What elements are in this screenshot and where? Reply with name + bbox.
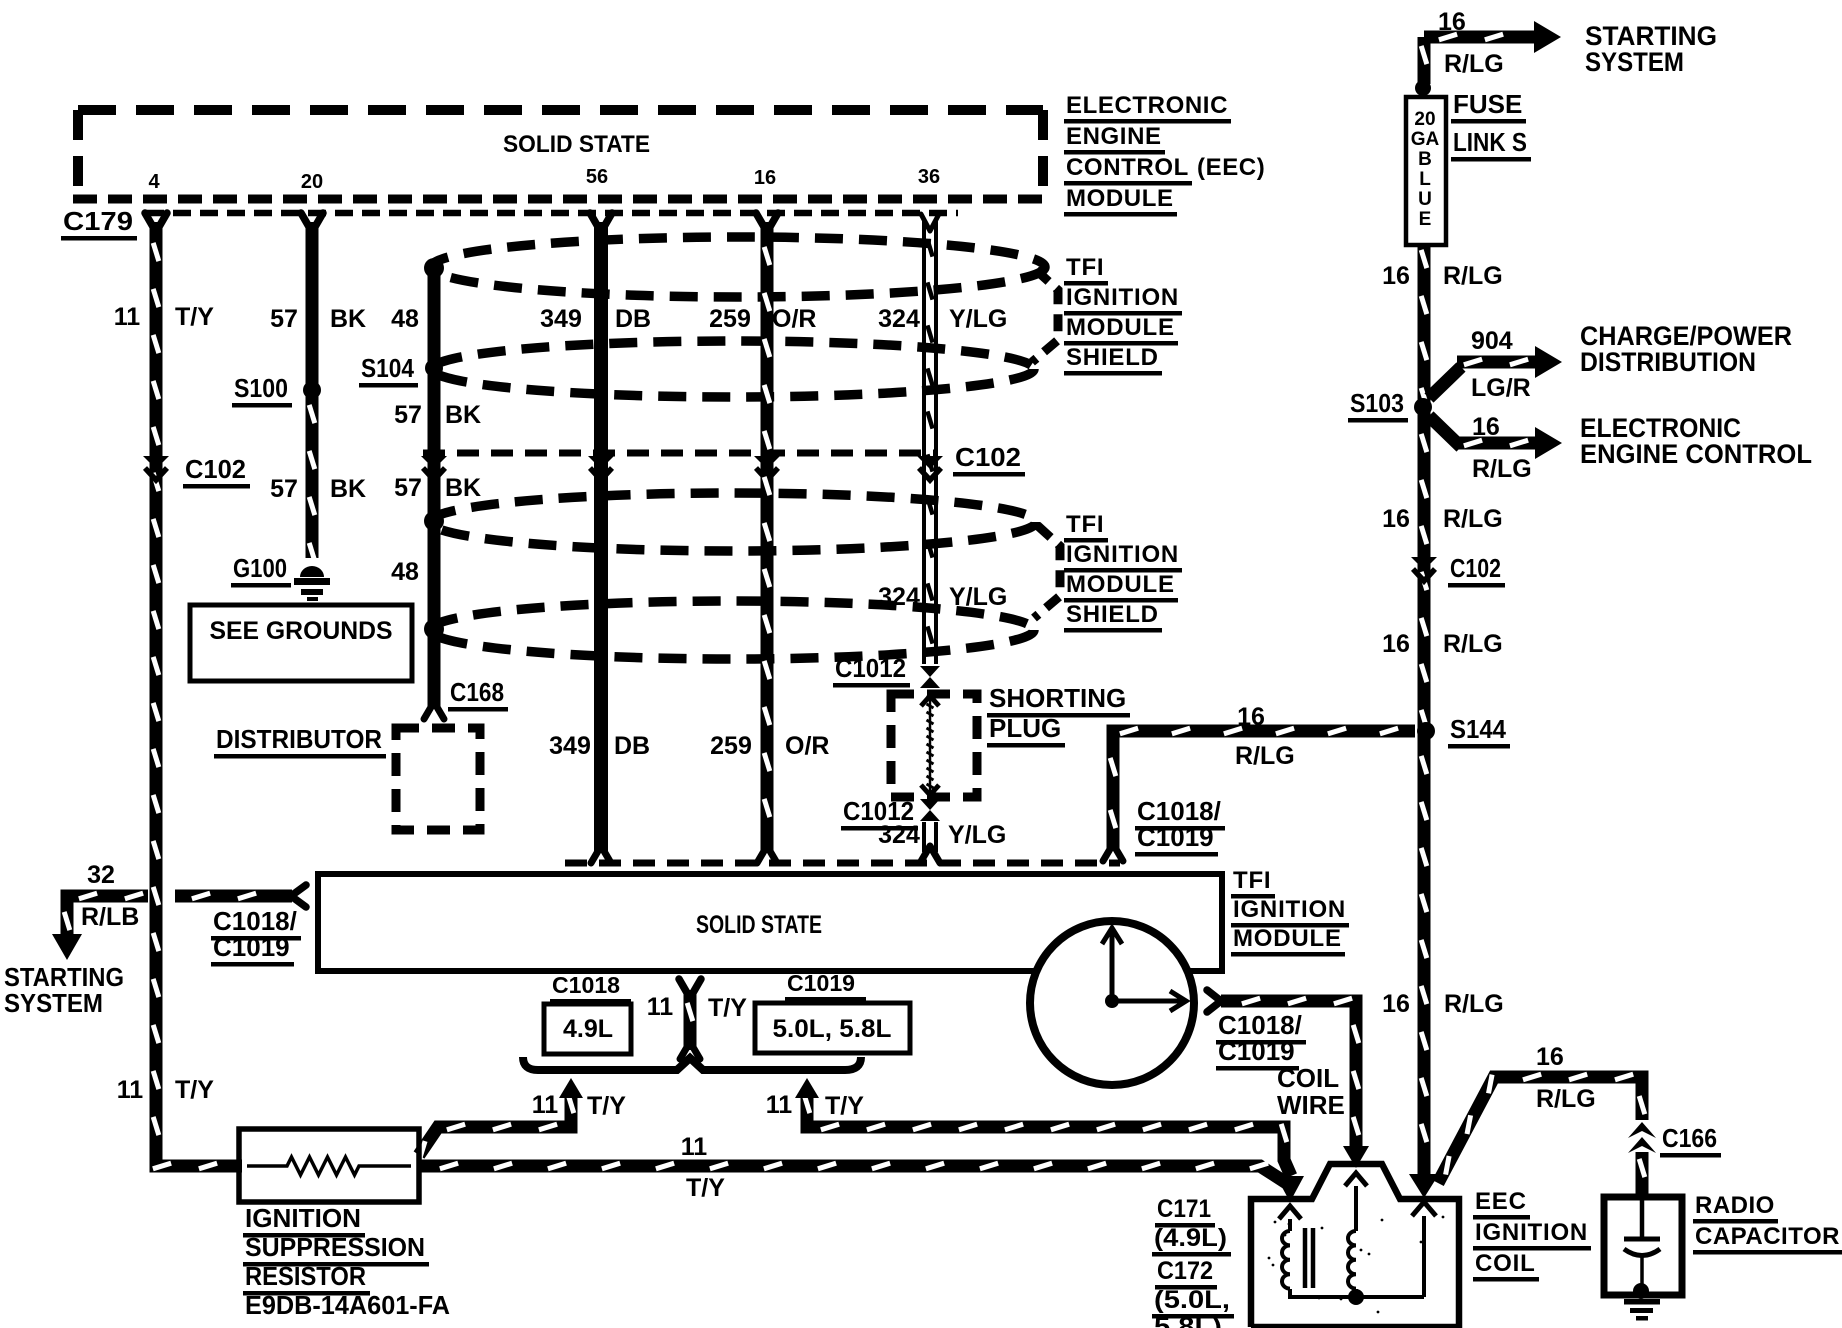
svg-text:16: 16 (754, 167, 776, 189)
connector C166 symbol (1628, 1122, 1656, 1138)
svg-text:IGNITION: IGNITION (1233, 896, 1346, 923)
svg-text:259: 259 (710, 732, 752, 760)
svg-text:RESISTOR: RESISTOR (245, 1261, 366, 1291)
svg-text:GA: GA (1411, 129, 1440, 150)
svg-text:Y/LG: Y/LG (949, 305, 1007, 333)
svg-text:CONTROL: CONTROL (1066, 154, 1189, 181)
svg-text:11: 11 (532, 1091, 559, 1119)
capacitor curved plate (1624, 1249, 1660, 1256)
svg-text:5.8L): 5.8L) (1154, 1313, 1222, 1328)
coil left entry chevron (1279, 1206, 1301, 1219)
connector C102 on wire 259 (754, 456, 780, 469)
svg-text:MODULE: MODULE (1066, 185, 1174, 212)
capacitor ground junction (1633, 1283, 1649, 1299)
capacitor flat plate (1624, 1237, 1660, 1242)
alternate connector brace (523, 1057, 861, 1070)
shorting plug mating arrows bottom (921, 785, 939, 795)
svg-text:904: 904 (1471, 327, 1513, 355)
svg-text:57: 57 (394, 474, 422, 502)
svg-text:C1019: C1019 (213, 932, 290, 962)
connector C1012 lower symbol (920, 799, 940, 810)
ignition suppression resistor element (247, 1157, 411, 1175)
TFI ignition module shield upper ellipse 2 (432, 341, 1034, 397)
wire 11 T/Y left drop from brace (419, 1096, 571, 1155)
svg-text:259: 259 (709, 305, 751, 333)
capacitor bottom lead (1640, 1256, 1644, 1291)
wire 48 shield drain vertical (428, 264, 441, 708)
svg-text:R/LG: R/LG (1443, 505, 1503, 533)
coil core bars (1303, 1228, 1308, 1288)
svg-text:16: 16 (1382, 990, 1410, 1018)
svg-text:ELECTRONIC: ELECTRONIC (1066, 92, 1228, 119)
connector on wire 349 DB at TFI module (591, 846, 611, 863)
svg-text:SHORTING: SHORTING (989, 683, 1126, 713)
svg-text:16: 16 (1536, 1043, 1564, 1071)
svg-text:CAPACITOR: CAPACITOR (1695, 1223, 1840, 1250)
svg-text:C166: C166 (1662, 1123, 1717, 1153)
svg-text:R/LG: R/LG (1536, 1085, 1596, 1113)
svg-text:C171: C171 (1157, 1195, 1211, 1223)
svg-text:COIL: COIL (1475, 1250, 1536, 1277)
svg-text:11: 11 (766, 1091, 793, 1119)
svg-text:Y/LG: Y/LG (948, 821, 1006, 849)
svg-text:349: 349 (549, 732, 591, 760)
wire 57 BK from EEC pin 20 to splice S100 (306, 222, 319, 388)
shorting plug mating arrows top (921, 696, 939, 706)
coil secondary winding (1354, 1186, 1358, 1231)
svg-text:Y/LG: Y/LG (949, 583, 1007, 611)
coil right entry arrow (1409, 1174, 1439, 1198)
splice S103 (1414, 398, 1432, 416)
svg-text:IGNITION: IGNITION (1066, 541, 1179, 568)
svg-text:B: B (1418, 149, 1432, 170)
svg-text:SEE GROUNDS: SEE GROUNDS (210, 617, 393, 645)
svg-text:SHIELD: SHIELD (1066, 344, 1159, 371)
svg-text:SYSTEM: SYSTEM (4, 988, 103, 1018)
svg-text:C1019: C1019 (787, 970, 855, 996)
svg-text:(4.9L): (4.9L) (1154, 1224, 1227, 1252)
svg-text:32: 32 (87, 861, 115, 889)
connector C102 on wire 48 (421, 456, 447, 469)
svg-text:DISTRIBUTOR: DISTRIBUTOR (216, 724, 382, 754)
capacitor top plate lead (1640, 1197, 1645, 1237)
svg-text:R/LG: R/LG (1472, 455, 1532, 483)
svg-text:48: 48 (391, 558, 419, 586)
connector at pin 16 (756, 213, 778, 232)
rotor center pivot (1105, 994, 1119, 1008)
svg-text:S144: S144 (1450, 714, 1506, 744)
wire 904 LG/R branch to charge power distribution (1429, 367, 1461, 398)
svg-text:R/LG: R/LG (1443, 630, 1503, 658)
shield tip junction lower-shield lower (424, 619, 444, 639)
connector C102 on wire 349 (588, 456, 614, 469)
svg-text:16: 16 (1382, 505, 1410, 533)
svg-text:ENGINE CONTROL: ENGINE CONTROL (1580, 439, 1812, 469)
svg-text:EEC: EEC (1475, 1188, 1527, 1215)
svg-text:16: 16 (1237, 703, 1265, 731)
svg-text:324: 324 (878, 305, 920, 333)
svg-text:5.0L, 5.8L: 5.0L, 5.8L (773, 1015, 892, 1043)
EEC ignition coil box (1251, 1164, 1459, 1327)
wire 16 R/LG to starting system top (1424, 31, 1534, 44)
svg-text:SHIELD: SHIELD (1066, 601, 1159, 628)
TFI ignition module box (318, 874, 1222, 971)
shorting plug internal jumper wire (929, 694, 932, 797)
radio capacitor ground symbol (1624, 1299, 1660, 1305)
coil left entry arrow (1276, 1176, 1304, 1202)
TFI ignition module shield upper ellipse 1 (431, 237, 1045, 297)
ignition suppression resistor box (239, 1129, 419, 1202)
coil bottom conductor (1288, 1295, 1424, 1299)
wire 16 R/LG from coil to radio capacitor (1438, 1077, 1642, 1183)
connector on S144 wire at TFI module (1103, 844, 1123, 861)
svg-text:ENGINE: ENGINE (1066, 123, 1162, 150)
wire 57 BK from splice S100 to ground G100 (306, 396, 319, 558)
svg-text:DB: DB (615, 305, 651, 333)
connector C168 on wire 48 (424, 702, 444, 719)
svg-text:LG/R: LG/R (1471, 374, 1531, 402)
wire 11 T/Y between C1018 and C1019 (679, 979, 701, 998)
svg-text:324: 324 (878, 821, 920, 849)
connector at pin 36 (921, 214, 939, 231)
TFI module connector dashed line (565, 860, 1120, 867)
svg-text:DISTRIBUTION: DISTRIBUTION (1580, 347, 1756, 377)
fuse link junction dot (1415, 80, 1431, 96)
svg-text:BK: BK (445, 474, 481, 502)
svg-text:56: 56 (586, 166, 608, 188)
wire 324 Y/LG shielded from EEC pin 36 (922, 218, 926, 664)
svg-text:E: E (1419, 209, 1432, 230)
distributor rotor circle (1030, 921, 1194, 1085)
svg-text:S104: S104 (361, 353, 414, 383)
wire 259 O/R from EEC pin 16 to TFI module (761, 222, 774, 852)
svg-text:MODULE: MODULE (1066, 314, 1175, 341)
splice S144 (1417, 722, 1435, 740)
svg-text:20: 20 (301, 171, 323, 193)
coil hump entry chevron (1345, 1173, 1367, 1186)
svg-text:57: 57 (270, 305, 298, 333)
svg-text:11: 11 (114, 303, 141, 331)
shield tip junction lower-shield upper (424, 511, 444, 531)
coil bottom junction (1348, 1289, 1364, 1305)
svg-text:C102: C102 (1450, 553, 1501, 583)
svg-text:WIRE: WIRE (1277, 1090, 1345, 1120)
shield tip junction upper (424, 258, 444, 278)
svg-text:R/LG: R/LG (1444, 50, 1504, 78)
svg-text:4.9L: 4.9L (563, 1015, 613, 1043)
connector C102 on right wire (1411, 557, 1437, 570)
svg-text:11: 11 (117, 1076, 144, 1104)
svg-text:G100: G100 (233, 553, 287, 583)
connector C1012 upper symbol (920, 666, 940, 677)
svg-text:20: 20 (1414, 109, 1435, 130)
rotor horizontal arrow (1112, 999, 1186, 1004)
connector C1018 box (544, 1004, 631, 1054)
svg-text:324: 324 (878, 583, 920, 611)
svg-text:T/Y: T/Y (825, 1092, 864, 1120)
svg-text:S103: S103 (1350, 388, 1404, 418)
distributor dashed box (396, 728, 480, 830)
svg-text:R/LG: R/LG (1235, 742, 1295, 770)
svg-text:C179: C179 (63, 206, 133, 236)
svg-text:57: 57 (394, 401, 422, 429)
wire 11 T/Y right drop from brace to EEC ignition coil (807, 1096, 1291, 1176)
TFI ignition module shield lower right bracket (1034, 526, 1060, 618)
SEE GROUNDS note box (190, 605, 412, 681)
connector at pin 4 (145, 213, 167, 232)
svg-text:TFI: TFI (1066, 511, 1104, 538)
svg-text:C168: C168 (450, 677, 504, 707)
wire 32 R/LB arrow (52, 934, 82, 960)
svg-text:IGNITION: IGNITION (245, 1203, 361, 1233)
svg-text:C102: C102 (955, 442, 1021, 472)
svg-text:MODULE: MODULE (1233, 925, 1342, 952)
svg-text:TFI: TFI (1066, 254, 1104, 281)
svg-text:IGNITION: IGNITION (1475, 1219, 1588, 1246)
svg-text:LINK S: LINK S (1453, 127, 1527, 157)
svg-text:MODULE: MODULE (1066, 571, 1175, 598)
svg-text:T/Y: T/Y (175, 303, 214, 331)
svg-text:SOLID STATE: SOLID STATE (696, 911, 822, 939)
connector at pin 56 (590, 213, 612, 232)
svg-text:16: 16 (1382, 630, 1410, 658)
svg-text:O/R: O/R (785, 732, 829, 760)
svg-text:U: U (1418, 189, 1432, 210)
splice S104 (425, 359, 443, 377)
svg-text:T/Y: T/Y (175, 1076, 214, 1104)
wire 16 R/LG into radio capacitor (1636, 1152, 1649, 1196)
svg-text:C172: C172 (1157, 1257, 1213, 1285)
connector at pin 20 (301, 213, 323, 232)
connector on wire 324 at TFI module (920, 846, 940, 863)
svg-text:C1019: C1019 (1218, 1036, 1295, 1066)
svg-text:T/Y: T/Y (708, 994, 747, 1022)
shorting plug dashed box (891, 694, 977, 797)
wire 16 R/LG from fuse link down to EEC ignition coil (1418, 245, 1431, 1178)
ground G100 symbol (300, 566, 324, 577)
svg-text:C102: C102 (185, 454, 246, 484)
connector C1019 box (755, 1003, 910, 1053)
connector on wire 259 O/R at TFI module (757, 846, 777, 863)
connector C102 on wire 324 (917, 456, 943, 469)
svg-text:T/Y: T/Y (587, 1092, 626, 1120)
svg-text:(5.0L,: (5.0L, (1154, 1286, 1230, 1314)
svg-text:C1019: C1019 (1137, 822, 1214, 852)
svg-text:(EEC): (EEC) (1197, 154, 1265, 181)
fuse link S box (1406, 97, 1446, 245)
svg-text:L: L (1419, 169, 1431, 190)
svg-text:S100: S100 (234, 373, 288, 403)
coil right conductor (1422, 1216, 1426, 1297)
coil box stipple texture (1321, 1227, 1324, 1230)
svg-text:C1012: C1012 (835, 653, 906, 683)
connector C102 on wire 11 T/Y (143, 456, 169, 469)
svg-text:FUSE: FUSE (1453, 89, 1522, 119)
svg-text:48: 48 (391, 305, 419, 333)
svg-text:57: 57 (270, 475, 298, 503)
TFI ignition module shield upper right bracket (1032, 270, 1058, 362)
svg-text:16: 16 (1472, 413, 1500, 441)
svg-text:O/R: O/R (772, 305, 816, 333)
svg-text:C1018: C1018 (552, 972, 620, 998)
connector C102 dashed harness line (423, 450, 937, 457)
coil wire from distributor rotor to EEC ignition coil (1207, 990, 1221, 1012)
svg-text:11: 11 (647, 993, 674, 1021)
EEC module dashed outline box (78, 105, 1043, 115)
wire 324 Y/LG below shorting plug (922, 822, 926, 852)
svg-text:BK: BK (330, 305, 366, 333)
svg-text:SUPPRESSION: SUPPRESSION (245, 1232, 425, 1262)
coil primary winding (1288, 1219, 1292, 1231)
wire stub to TFI module left C1018/C1019 (175, 890, 292, 903)
splice S100 (303, 381, 321, 399)
svg-text:SOLID STATE: SOLID STATE (503, 131, 650, 158)
svg-text:R/LB: R/LB (81, 903, 139, 931)
svg-text:SYSTEM: SYSTEM (1585, 47, 1684, 77)
wire 16 R/LG from arrow corner to fuse link (1418, 37, 1431, 84)
svg-text:BK: BK (445, 401, 481, 429)
TFI ignition module shield lower ellipse 2 (430, 601, 1034, 659)
svg-text:IGNITION: IGNITION (1066, 284, 1179, 311)
TFI ignition module shield lower ellipse 1 (430, 493, 1036, 551)
svg-text:PLUG: PLUG (989, 713, 1061, 743)
wire 16 R/LG branch to electronic engine control (1429, 416, 1461, 447)
svg-text:T/Y: T/Y (686, 1174, 725, 1202)
rotor vertical arrow (1110, 928, 1115, 1001)
wire 11 T/Y from EEC pin 4 down and to ignition suppression resistor (156, 222, 242, 1166)
svg-text:E9DB-14A601-FA: E9DB-14A601-FA (245, 1290, 450, 1320)
svg-text:349: 349 (540, 305, 582, 333)
wire 16 R/LG from S144 to TFI module (1113, 731, 1415, 850)
svg-text:16: 16 (1382, 262, 1410, 290)
svg-text:R/LG: R/LG (1444, 990, 1504, 1018)
wire 349 DB from EEC pin 56 to TFI module (594, 222, 608, 852)
svg-text:36: 36 (918, 166, 940, 188)
radio capacitor box (1604, 1197, 1682, 1295)
svg-text:R/LG: R/LG (1443, 262, 1503, 290)
coil right entry chevron (1412, 1202, 1436, 1216)
svg-text:TFI: TFI (1233, 867, 1271, 894)
svg-text:4: 4 (148, 171, 160, 193)
svg-text:DB: DB (614, 732, 650, 760)
svg-text:BK: BK (330, 475, 366, 503)
wire 32 R/LB to starting system (67, 896, 148, 934)
svg-text:16: 16 (1438, 8, 1466, 36)
svg-text:COIL: COIL (1277, 1063, 1339, 1093)
svg-text:11: 11 (681, 1133, 708, 1161)
svg-text:RADIO: RADIO (1695, 1192, 1775, 1219)
connector C179 harness dashed line (146, 210, 958, 217)
wire 11 T/Y from resistor to EEC ignition coil (419, 1166, 1288, 1184)
